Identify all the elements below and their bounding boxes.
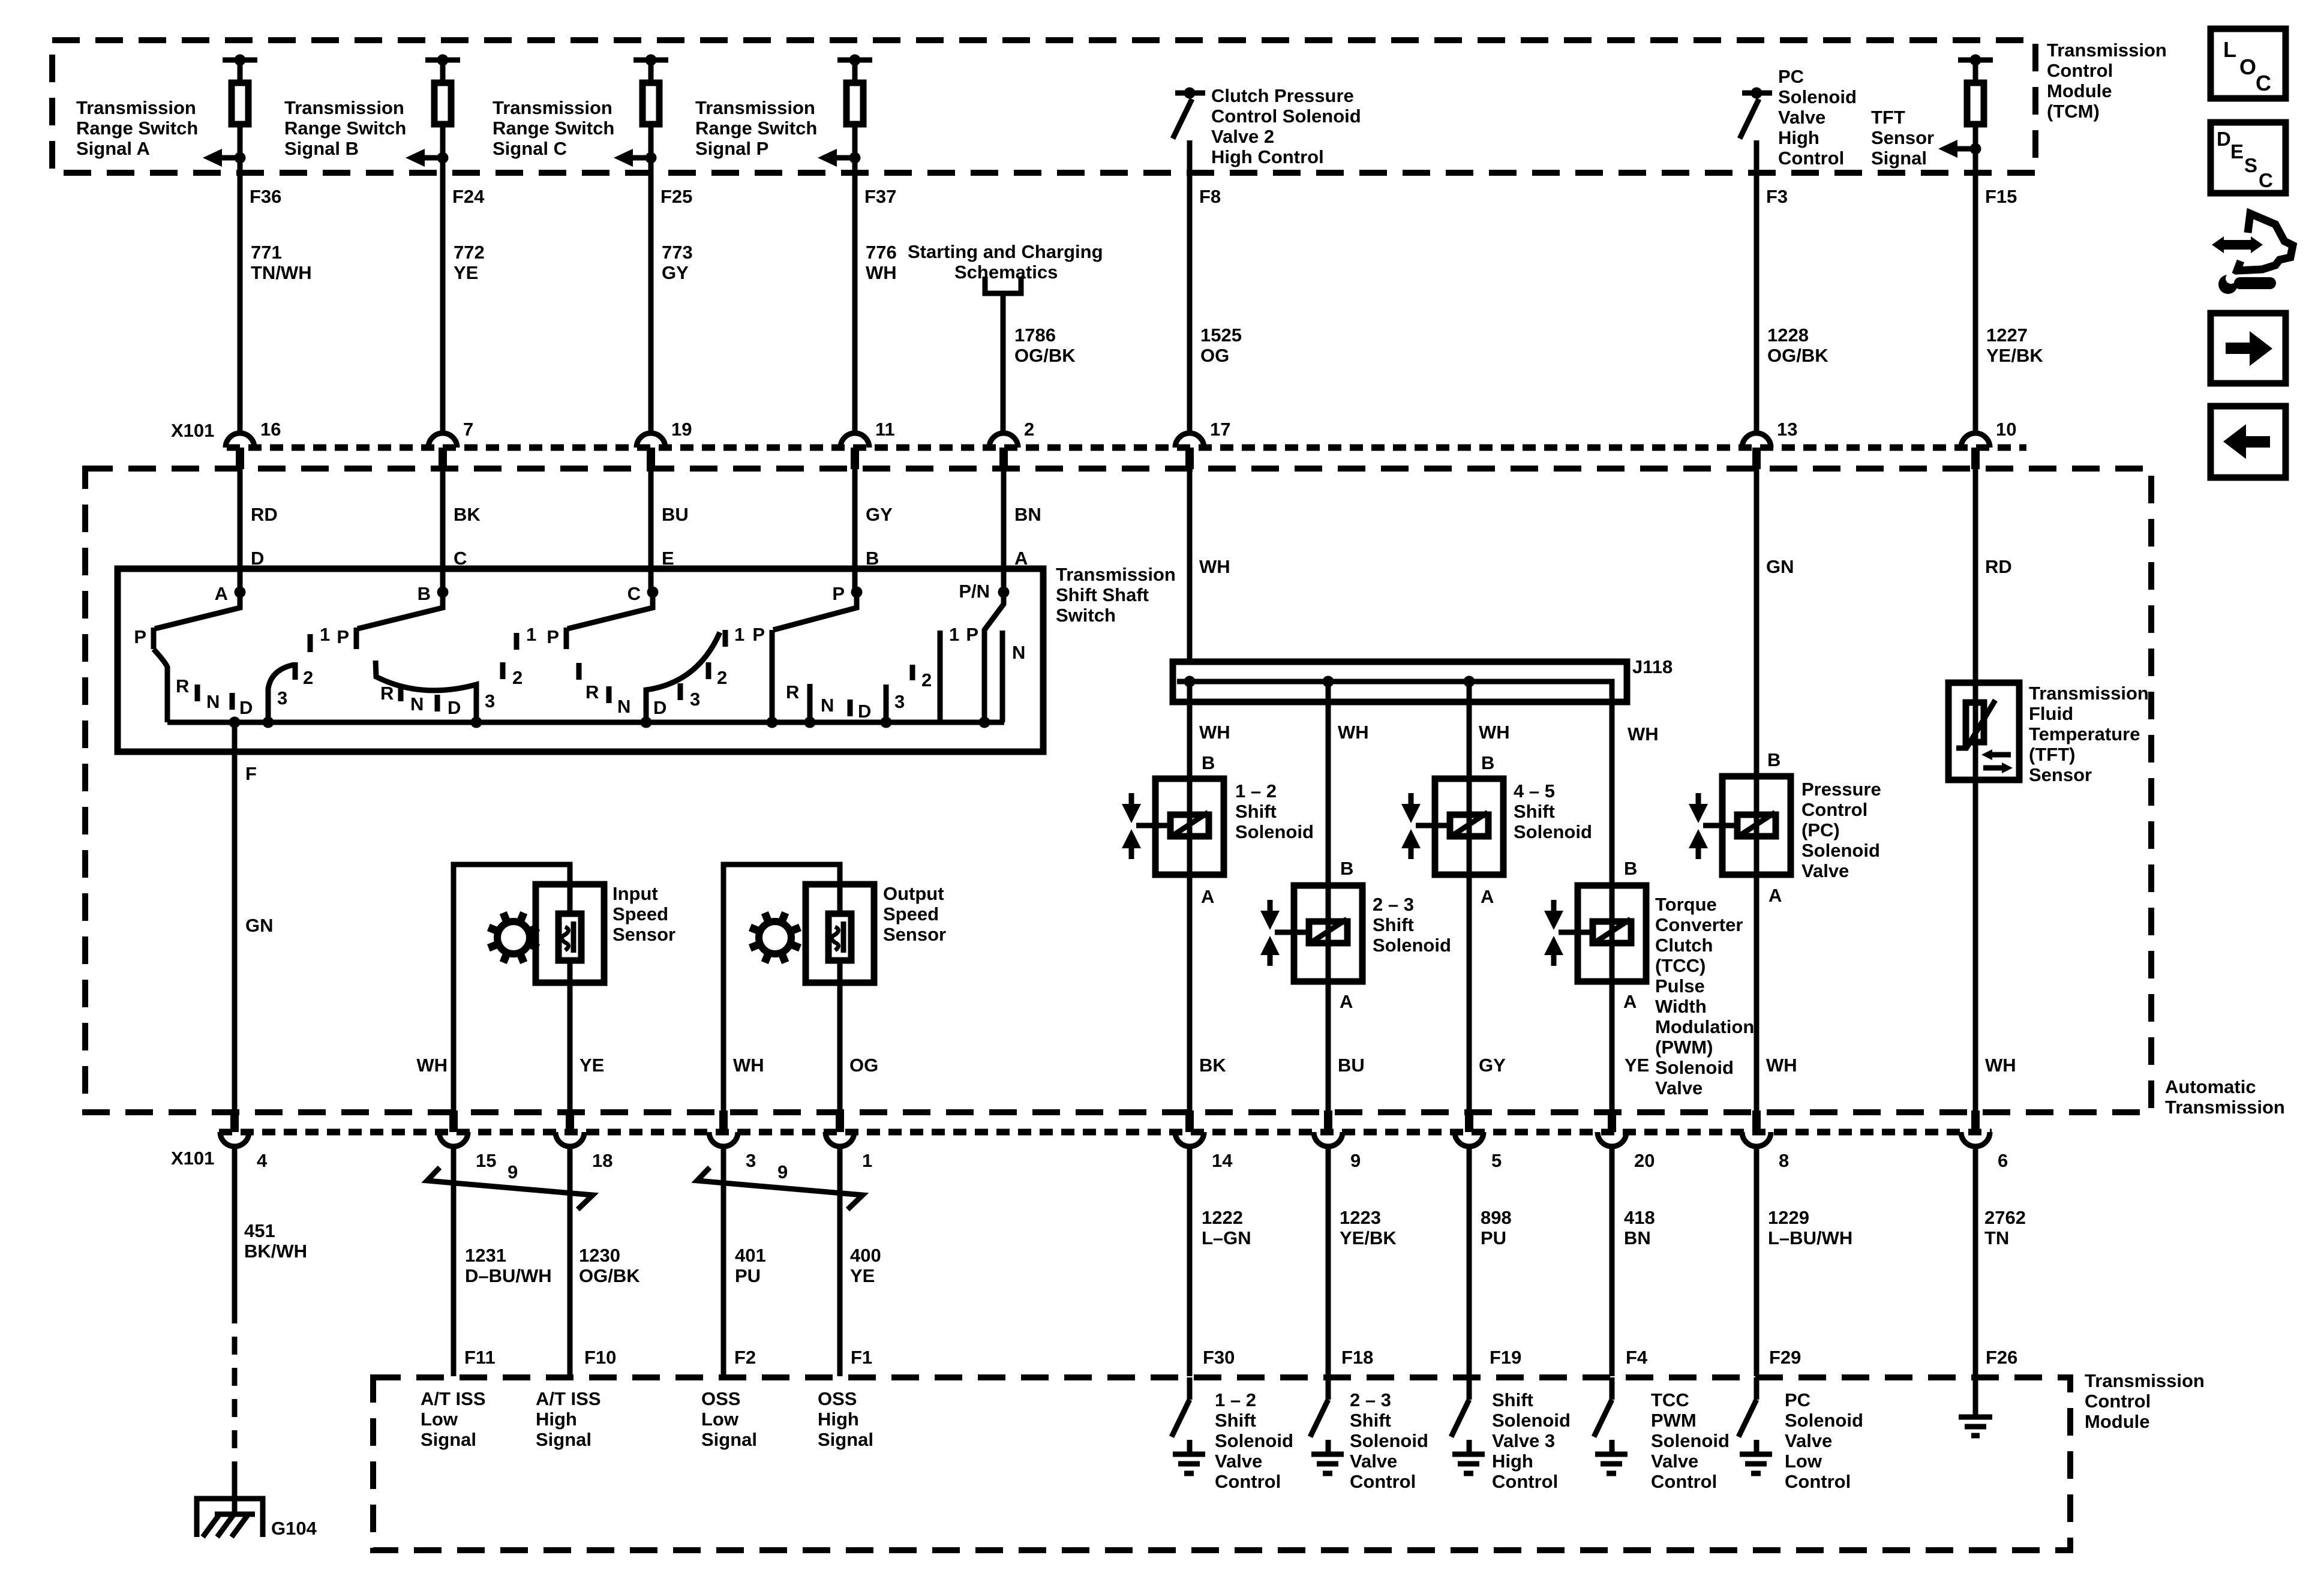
svg-text:Shift: Shift — [1492, 1389, 1533, 1410]
svg-text:R: R — [380, 683, 394, 704]
svg-text:Solenoid: Solenoid — [1801, 840, 1880, 861]
svg-text:Shift: Shift — [1373, 914, 1414, 935]
wire label 1229 L-BU/WH — [1768, 1207, 1852, 1248]
label: OSS High Signal — [818, 1388, 873, 1450]
svg-text:451: 451 — [244, 1220, 275, 1241]
label: Automatic Transmission — [2165, 1076, 2285, 1118]
svg-text:GY: GY — [1479, 1055, 1506, 1076]
svg-text:WH: WH — [1628, 724, 1659, 745]
svg-text:3: 3 — [690, 689, 700, 710]
svg-text:Valve 2: Valve 2 — [1211, 126, 1274, 147]
svg-text:WH: WH — [866, 262, 897, 283]
svg-text:Shift: Shift — [1514, 801, 1555, 822]
switch B arm to P — [358, 592, 443, 629]
wire J118 to 1-2 solenoid to pin 14 — [1187, 682, 1193, 1110]
wire F26 into TCM — [1973, 1377, 1978, 1417]
svg-text:BU: BU — [1338, 1055, 1365, 1076]
wire 2-3 Shift Solenoid Valve Control into TCM — [1326, 1377, 1331, 1400]
resistor body Signal A — [232, 83, 248, 124]
connector X101 bottom dotted line — [219, 1129, 1992, 1136]
connector X101 pin 11 top — [840, 419, 895, 469]
svg-text:Output: Output — [883, 883, 944, 904]
svg-text:P: P — [832, 583, 845, 604]
1 - 2 Shift Solenoid box — [1155, 779, 1224, 875]
J118 internal bus wire — [1177, 682, 1612, 702]
svg-text:Solenoid: Solenoid — [1514, 821, 1592, 842]
svg-text:F10: F10 — [584, 1347, 616, 1368]
svg-text:WH: WH — [1766, 1055, 1797, 1076]
Input Speed Sensor body box — [536, 884, 604, 983]
svg-text:Starting and Charging: Starting and Charging — [908, 241, 1103, 262]
TCM bottom dashed box — [373, 1377, 2070, 1550]
svg-text:Transmission: Transmission — [76, 97, 196, 118]
wire label 776 WH — [866, 242, 897, 283]
svg-text:B: B — [1767, 749, 1780, 770]
Output Speed Sensor loop wire — [723, 864, 840, 1110]
svg-text:Valve: Valve — [1651, 1451, 1698, 1472]
svg-text:Solenoid: Solenoid — [1778, 86, 1857, 107]
svg-text:S: S — [2244, 154, 2257, 176]
svg-text:2: 2 — [512, 667, 523, 688]
wire label 1230 — [579, 1245, 640, 1286]
wire 451 BK/WH solid — [232, 1146, 238, 1305]
svg-text:20: 20 — [1634, 1150, 1655, 1171]
Output Speed Sensor gear — [750, 912, 800, 962]
2 - 3 Shift Solenoid coil — [1275, 919, 1347, 943]
svg-text:13: 13 — [1777, 419, 1797, 440]
svg-text:GY: GY — [662, 262, 689, 283]
1 - 2 Shift Solenoid coil — [1136, 812, 1209, 836]
switch C arm to P — [568, 592, 653, 629]
icon box DESC — [2211, 122, 2286, 193]
svg-text:776: 776 — [866, 242, 897, 263]
PC Solenoid Valve High Control output driver symbol — [1740, 88, 1772, 139]
svg-text:B: B — [1202, 752, 1215, 773]
svg-text:J118: J118 — [1632, 656, 1673, 677]
svg-text:Solenoid: Solenoid — [1235, 821, 1314, 842]
svg-text:Modulation: Modulation — [1655, 1016, 1754, 1037]
label: Pressure Control (PC) Solenoid Valve — [1801, 779, 1881, 881]
wire Signal B in TCM — [440, 62, 446, 433]
svg-text:Transmission: Transmission — [2047, 40, 2167, 61]
svg-text:1223: 1223 — [1340, 1207, 1381, 1228]
ground (2-3 Shift Solenoid Valve Control) — [1311, 1440, 1344, 1473]
switch B node — [418, 583, 449, 604]
svg-text:X101: X101 — [171, 1148, 214, 1169]
wire label 451 BK/WH — [244, 1220, 307, 1262]
svg-text:D: D — [858, 701, 871, 722]
svg-text:Signal: Signal — [536, 1429, 591, 1450]
svg-text:WH: WH — [416, 1055, 448, 1076]
resistor top bar Signal P — [837, 55, 872, 66]
svg-text:RD: RD — [1985, 556, 2012, 577]
svg-text:C: C — [2256, 71, 2271, 95]
svg-text:OG: OG — [1200, 345, 1229, 366]
svg-text:N: N — [821, 695, 834, 716]
label: Transmission Fluid Temperature (TFT) Sensor — [2029, 683, 2149, 785]
TFT resistor body — [1967, 83, 1984, 124]
svg-text:Sensor: Sensor — [883, 924, 946, 945]
svg-text:(PC): (PC) — [1801, 819, 1840, 840]
switch lever (2-3 Shift Solenoid Valve Control) — [1310, 1400, 1328, 1437]
svg-text:WH: WH — [1199, 722, 1230, 743]
svg-text:772: 772 — [454, 242, 485, 263]
svg-text:Pressure: Pressure — [1801, 779, 1881, 800]
connector X101 pin 2 top — [989, 419, 1034, 469]
svg-text:Valve: Valve — [1801, 860, 1849, 881]
label: Transmission Range Switch Signal B — [284, 97, 406, 159]
svg-text:F19: F19 — [1490, 1347, 1521, 1368]
twisted pair symbol — [427, 1161, 593, 1209]
ground (PC Solenoid Valve Low Control) — [1740, 1440, 1772, 1473]
svg-text:Valve: Valve — [1655, 1077, 1703, 1098]
TFT resistor top bar — [1958, 55, 1993, 66]
svg-text:A: A — [215, 583, 228, 604]
svg-text:Solenoid: Solenoid — [1655, 1057, 1734, 1078]
TCM top dashed box — [52, 40, 2035, 173]
svg-text:Shift Shaft: Shift Shaft — [1056, 584, 1149, 605]
svg-text:Shift: Shift — [1235, 801, 1277, 822]
PC solenoid check valve — [1689, 793, 1708, 859]
svg-text:F8: F8 — [1199, 186, 1221, 207]
svg-text:P: P — [966, 624, 978, 645]
svg-text:F11: F11 — [464, 1347, 496, 1368]
connector X101 pin 15 bottom — [439, 1110, 496, 1171]
svg-text:F29: F29 — [1769, 1347, 1801, 1368]
switch P contacts 1 2 — [912, 624, 959, 722]
svg-text:WH: WH — [1338, 722, 1369, 743]
connector X101 pin 4 bottom — [220, 1110, 268, 1171]
svg-text:2: 2 — [303, 667, 313, 688]
svg-text:Clutch: Clutch — [1655, 935, 1713, 956]
wire 418 below pin 20 — [1610, 1146, 1615, 1376]
connector X101 pin 8 bottom — [1742, 1110, 1789, 1171]
svg-text:F4: F4 — [1626, 1347, 1648, 1368]
icon box right arrow — [2211, 313, 2286, 383]
svg-text:Signal C: Signal C — [493, 138, 567, 159]
svg-text:TCC: TCC — [1651, 1389, 1689, 1410]
svg-text:401: 401 — [735, 1245, 766, 1266]
svg-text:Schematics: Schematics — [954, 262, 1058, 283]
wire label 898 PU — [1481, 1207, 1512, 1248]
Output Speed Sensor element — [828, 914, 851, 960]
svg-text:Switch: Switch — [1056, 605, 1116, 626]
connector X101 pin 10 top — [1961, 419, 2016, 469]
svg-text:YE/BK: YE/BK — [1340, 1227, 1397, 1248]
switch P contact P to bus — [752, 624, 772, 722]
ground G104 — [197, 1499, 317, 1539]
svg-text:4: 4 — [257, 1150, 268, 1171]
connector X101 pin 16 top — [226, 419, 281, 469]
svg-text:1227: 1227 — [1986, 325, 2028, 346]
svg-text:N: N — [206, 691, 220, 712]
switch P contacts R N D — [786, 682, 871, 722]
svg-text:9: 9 — [508, 1161, 518, 1182]
ground (Shift Solenoid Valve 3 High Control) — [1452, 1440, 1485, 1473]
svg-text:10: 10 — [1996, 419, 2016, 440]
svg-text:P: P — [752, 624, 765, 645]
ground (TCC PWM Solenoid Valve Control) — [1595, 1440, 1628, 1473]
svg-text:BK: BK — [454, 504, 481, 525]
svg-text:Signal P: Signal P — [695, 138, 768, 159]
svg-text:A/T ISS: A/T ISS — [536, 1388, 601, 1409]
svg-text:Transmission: Transmission — [2029, 683, 2149, 704]
label: Transmission Control Module (bottom) — [2085, 1370, 2205, 1432]
wire label 773 GY — [662, 242, 693, 283]
twisted pair symbol — [697, 1161, 863, 1209]
svg-text:Transmission: Transmission — [2085, 1370, 2205, 1391]
svg-text:7: 7 — [463, 419, 473, 440]
switch lever (1-2 Shift Solenoid Valve Control) — [1172, 1400, 1190, 1437]
svg-text:Solenoid: Solenoid — [1373, 935, 1451, 956]
label: Shift Solenoid Valve 3 High Control — [1492, 1389, 1571, 1492]
svg-text:D–BU/WH: D–BU/WH — [465, 1265, 552, 1286]
svg-text:RD: RD — [251, 504, 278, 525]
switch A contacts R N D — [176, 676, 253, 718]
svg-text:High: High — [818, 1409, 859, 1430]
Input Speed Sensor gear — [488, 912, 538, 962]
svg-text:GN: GN — [1766, 556, 1794, 577]
svg-text:Sensor: Sensor — [1871, 127, 1934, 148]
svg-text:TFT: TFT — [1871, 107, 1905, 128]
svg-text:P: P — [337, 626, 349, 647]
switch C node — [627, 583, 659, 604]
svg-text:Control: Control — [1350, 1471, 1416, 1492]
wire TCC PWM Solenoid Valve Control into TCM — [1610, 1377, 1615, 1400]
signal arrow Signal C — [614, 149, 657, 167]
svg-text:1231: 1231 — [465, 1245, 506, 1266]
svg-text:Solenoid: Solenoid — [1492, 1410, 1571, 1431]
wire J118 to 4-5 solenoid to pin 5 — [1467, 682, 1472, 1110]
switch lever (PC Solenoid Valve Low Control) — [1739, 1400, 1756, 1437]
svg-text:Control Solenoid: Control Solenoid — [1211, 106, 1361, 127]
svg-text:BU: BU — [662, 504, 689, 525]
svg-text:1786: 1786 — [1014, 325, 1056, 346]
label: TFT Sensor Signal — [1871, 107, 1934, 169]
svg-text:Control: Control — [1801, 799, 1867, 820]
svg-text:Solenoid: Solenoid — [1350, 1430, 1428, 1451]
Torque Converter Clutch (TCC) PWM Solenoid Valve box — [1578, 885, 1646, 981]
label: PC Solenoid Valve Low Control — [1785, 1389, 1863, 1492]
wire 15 below connector — [451, 1146, 457, 1376]
svg-text:1230: 1230 — [579, 1245, 620, 1266]
svg-text:898: 898 — [1481, 1207, 1512, 1228]
svg-text:2: 2 — [921, 670, 932, 691]
svg-text:Shift: Shift — [1350, 1410, 1391, 1431]
wire 1-2 Shift Solenoid Valve Control into TCM — [1187, 1377, 1193, 1400]
icon box LOC — [2211, 29, 2286, 98]
wire Shift Solenoid Valve 3 High Control into TCM — [1467, 1377, 1472, 1400]
svg-text:WH: WH — [733, 1055, 764, 1076]
svg-text:A: A — [1481, 886, 1494, 907]
svg-text:F37: F37 — [864, 186, 896, 207]
wire label 1231 — [465, 1245, 552, 1286]
icon box left arrow — [2211, 406, 2286, 478]
svg-text:Control: Control — [2047, 60, 2113, 81]
signal arrow Signal P — [818, 149, 861, 167]
svg-text:O: O — [2239, 55, 2256, 79]
4 - 5 Shift Solenoid check valve — [1401, 793, 1421, 859]
svg-text:F25: F25 — [660, 186, 692, 207]
wire GN to PC solenoid — [1754, 469, 1759, 776]
svg-text:F24: F24 — [452, 186, 485, 207]
svg-text:5: 5 — [1491, 1150, 1502, 1171]
connector X101 pin 6 bottom — [1961, 1110, 2008, 1171]
Output Speed Sensor body box — [806, 884, 874, 983]
svg-text:Low: Low — [1785, 1451, 1822, 1472]
svg-text:Signal: Signal — [1871, 148, 1927, 169]
svg-text:9: 9 — [1350, 1150, 1361, 1171]
label: Transmission Shift Shaft Switch — [1056, 564, 1176, 626]
svg-text:F3: F3 — [1766, 186, 1788, 207]
svg-text:P/N: P/N — [959, 581, 990, 602]
wire A below connector — [238, 469, 243, 592]
svg-text:OG: OG — [849, 1055, 878, 1076]
switch A arm to P — [155, 592, 240, 629]
wire 1 below connector — [837, 1146, 843, 1376]
svg-text:Valve 3: Valve 3 — [1492, 1430, 1555, 1451]
wire label 1227 YE/BK — [1986, 325, 2043, 366]
svg-text:BN: BN — [1014, 504, 1041, 525]
svg-text:D: D — [448, 697, 461, 718]
switch A wiper P to bus — [154, 649, 167, 722]
svg-text:3: 3 — [277, 688, 287, 709]
connector X101 pin 14 bottom — [1175, 1110, 1233, 1171]
svg-text:Solenoid: Solenoid — [1215, 1430, 1293, 1451]
svg-text:L–GN: L–GN — [1202, 1227, 1251, 1248]
svg-text:R: R — [585, 682, 599, 703]
switch lever (Shift Solenoid Valve 3 High Control) — [1451, 1400, 1469, 1437]
wire F GN from bus — [232, 722, 238, 1110]
svg-text:G104: G104 — [271, 1518, 317, 1539]
svg-text:A/T ISS: A/T ISS — [421, 1388, 486, 1409]
svg-text:High Control: High Control — [1211, 146, 1324, 167]
wire B below connector — [440, 469, 446, 592]
svg-text:2762: 2762 — [1984, 1207, 2026, 1228]
svg-text:8: 8 — [1779, 1150, 1789, 1171]
wire Signal A in TCM — [238, 62, 243, 433]
svg-text:C: C — [2259, 169, 2273, 191]
svg-text:Control: Control — [1778, 148, 1844, 169]
svg-text:Range Switch: Range Switch — [493, 118, 614, 139]
switch C wiper D-1 to bus — [646, 632, 720, 722]
svg-text:PU: PU — [735, 1265, 761, 1286]
svg-text:R: R — [176, 676, 189, 697]
switch lever (TCC PWM Solenoid Valve Control) — [1594, 1400, 1612, 1437]
wire label 400 — [850, 1245, 881, 1286]
ground (1-2 Shift Solenoid Valve Control) — [1173, 1440, 1205, 1473]
svg-text:Transmission: Transmission — [493, 97, 612, 118]
wire through TFT sensor to pin 6 — [1973, 683, 1978, 1110]
svg-text:1: 1 — [862, 1150, 872, 1171]
TFT thermistor — [1956, 700, 1995, 748]
wire F15 in TCM — [1973, 62, 1978, 433]
switch C contact P — [547, 626, 566, 649]
switch B contacts 1 2 3 — [485, 624, 536, 712]
svg-text:Valve: Valve — [1215, 1451, 1262, 1472]
label: A/T ISS High Signal — [536, 1388, 601, 1450]
svg-text:PC: PC — [1785, 1389, 1810, 1410]
wire label 1525 OG — [1200, 325, 1242, 366]
connector X101 pin 18 bottom — [556, 1110, 612, 1171]
svg-text:N: N — [617, 696, 630, 717]
svg-text:Pulse: Pulse — [1655, 975, 1705, 996]
svg-text:C: C — [627, 583, 641, 604]
svg-text:14: 14 — [1212, 1150, 1233, 1171]
wire C below connector — [648, 469, 654, 592]
svg-text:1: 1 — [949, 624, 959, 645]
svg-text:F36: F36 — [250, 186, 281, 207]
wire 451 BK/WH dashed — [232, 1305, 238, 1477]
wire P below connector — [852, 469, 858, 592]
wire through PC solenoid to pin 8 — [1754, 776, 1759, 1110]
svg-text:1222: 1222 — [1202, 1207, 1243, 1228]
svg-text:D: D — [239, 697, 253, 718]
label: TCC PWM Solenoid Valve Control — [1651, 1389, 1730, 1492]
switch B wiper R-3 to bus — [376, 661, 476, 722]
svg-text:N: N — [1012, 642, 1025, 663]
label: Output Speed Sensor — [883, 883, 946, 945]
svg-text:WH: WH — [1479, 722, 1510, 743]
svg-text:Speed: Speed — [883, 903, 939, 924]
svg-text:Signal: Signal — [421, 1429, 476, 1450]
label: Transmission Control Module (TCM) — [2047, 40, 2167, 122]
wire 1786 OG/BK — [1001, 293, 1006, 433]
svg-text:D: D — [2217, 128, 2231, 150]
signal arrow Signal B — [406, 149, 449, 167]
wire 18 below connector — [568, 1146, 573, 1376]
svg-text:A: A — [1623, 991, 1637, 1012]
svg-text:Range Switch: Range Switch — [695, 118, 817, 139]
wire stub to ground — [232, 1477, 238, 1514]
svg-text:OSS: OSS — [701, 1388, 740, 1409]
wire label 2762 TN — [1984, 1207, 2026, 1248]
wire label 1223 YE/BK — [1340, 1207, 1397, 1248]
svg-text:YE: YE — [580, 1055, 604, 1076]
wire label 418 BN — [1624, 1207, 1655, 1248]
svg-text:Signal: Signal — [818, 1429, 873, 1450]
connector X101 pin 17 top — [1175, 419, 1230, 469]
svg-text:Fluid: Fluid — [2029, 703, 2073, 724]
switch B contacts R N D — [380, 683, 461, 718]
svg-text:1228: 1228 — [1767, 325, 1809, 346]
svg-text:F30: F30 — [1203, 1347, 1235, 1368]
svg-text:BN: BN — [1624, 1227, 1651, 1248]
svg-text:1: 1 — [734, 624, 744, 645]
svg-text:OG/BK: OG/BK — [1014, 345, 1076, 366]
svg-text:OSS: OSS — [818, 1388, 857, 1409]
label: 1 – 2 Shift Solenoid Valve Control — [1215, 1389, 1293, 1492]
connector X101 pin 3 bottom — [709, 1110, 756, 1171]
connector X101 pin 5 bottom — [1455, 1110, 1502, 1171]
Input Speed Sensor loop wire — [454, 864, 570, 1110]
J118 junction dots — [1184, 676, 1475, 688]
svg-text:Control: Control — [1785, 1471, 1851, 1492]
svg-text:1 – 2: 1 – 2 — [1235, 781, 1277, 801]
svg-text:Low: Low — [701, 1409, 739, 1430]
svg-text:P: P — [547, 626, 559, 647]
wire J118 to 2-3 solenoid to pin 9 — [1326, 682, 1331, 1110]
svg-text:Sensor: Sensor — [612, 924, 675, 945]
2 - 3 Shift Solenoid check valve — [1260, 900, 1280, 966]
4 - 5 Shift Solenoid coil — [1416, 812, 1488, 836]
label: Clutch Pressure Control Solenoid Valve 2 High Control — [1211, 85, 1361, 167]
svg-text:Shift: Shift — [1215, 1410, 1256, 1431]
switch C contacts R N D — [579, 663, 666, 718]
wire 1222 below pin 14 — [1187, 1146, 1193, 1376]
svg-text:Speed: Speed — [612, 903, 668, 924]
switch P/N arm and P line — [984, 592, 1004, 722]
